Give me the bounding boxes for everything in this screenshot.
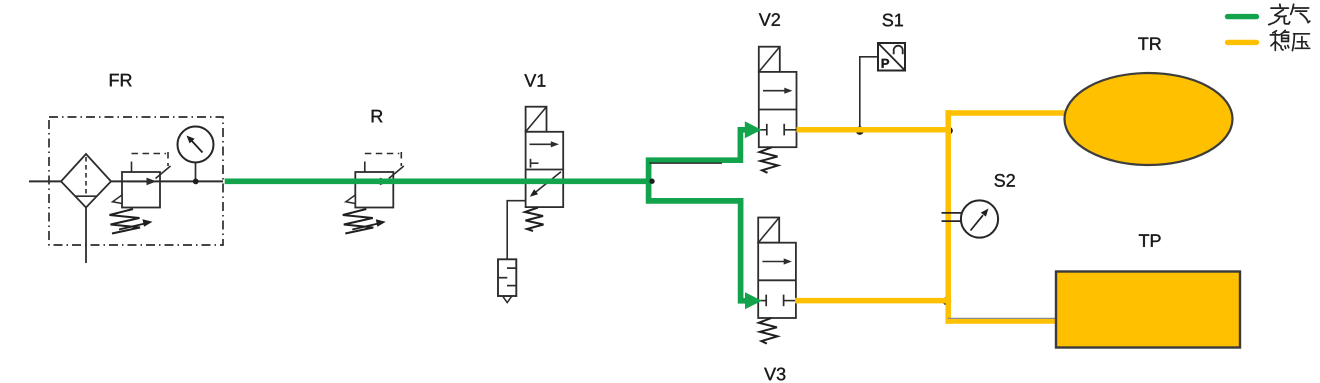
wire: thin pipe line atop TP feed	[948, 317, 1056, 319]
pressure sensor S1	[860, 43, 905, 127]
tank TR (ellipse)	[1065, 73, 1233, 165]
legend label: charge (chong qi) drawn glyphs	[1269, 4, 1310, 24]
arrow into V2 (green)	[745, 121, 762, 138]
label V2	[759, 13, 780, 26]
junction: S1 tap on stabilize line	[856, 127, 864, 135]
filter-regulator unit FR enclosure	[49, 117, 223, 245]
label TP	[1139, 234, 1161, 246]
label TR	[1138, 38, 1161, 50]
wire: stabilize line V2 to bus (orange)	[797, 127, 951, 133]
wire: charge line main (green)	[225, 178, 652, 184]
junction: charge line split	[649, 179, 654, 184]
wire: vertical stabilize bus (orange)	[945, 110, 951, 323]
pressure gauge S2	[942, 200, 999, 237]
legend: stabilize line sample (orange)	[1228, 40, 1257, 45]
wire: bus to tank TR (orange)	[946, 110, 1069, 116]
label R	[372, 110, 383, 122]
wire: bus to tank TP (orange)	[946, 318, 1059, 324]
wire: FR drain line	[85, 208, 87, 264]
regulator (inside FR)	[110, 152, 171, 234]
wire: thin pipe line under upper branch	[649, 162, 722, 164]
tank TP (rectangle)	[1056, 272, 1240, 348]
legend label: stabilize (wen ya) drawn glyphs	[1270, 30, 1309, 50]
junction: V2 branch on vertical bus	[945, 127, 952, 134]
arrow into V3 (green)	[745, 292, 762, 309]
label S1	[883, 14, 903, 27]
label V3	[764, 368, 785, 381]
label FR	[110, 74, 132, 86]
junction: V3 branch on vertical bus	[943, 297, 951, 305]
wire: charge line lower branch to V3 (green)	[649, 178, 746, 301]
valve V1 (3/2 solenoid valve)	[525, 107, 563, 231]
silencer on V1 exhaust	[498, 259, 516, 302]
label S2	[995, 174, 1015, 187]
wire: V1 exhaust line	[507, 201, 525, 260]
wire: stabilize line V3 to bus (orange)	[795, 298, 951, 304]
regulator R	[343, 152, 404, 234]
label V1	[524, 74, 545, 86]
legend: charge line sample (green)	[1228, 14, 1257, 19]
junction: FR gauge tap	[193, 179, 199, 185]
valve V2 (2/2 solenoid valve)	[759, 47, 797, 173]
pressure gauge on FR	[178, 127, 214, 182]
valve V3 (2/2 solenoid valve)	[758, 218, 796, 344]
wire: inlet pipe through FR	[29, 180, 223, 182]
wire: charge line upper branch to V2 (green)	[649, 130, 746, 184]
filter F (diamond) in FR	[61, 154, 111, 208]
